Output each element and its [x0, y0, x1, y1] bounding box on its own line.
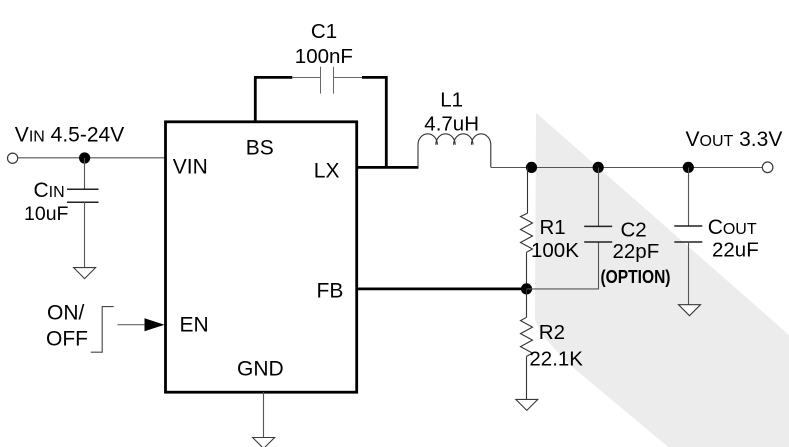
- output terminal circle: [762, 162, 773, 173]
- wire BS riser: [255, 77, 292, 121]
- ground CIN: [74, 268, 96, 279]
- capacitor CIN: [67, 158, 99, 268]
- node COUT junction: [683, 162, 694, 173]
- svg-text:EN: EN: [180, 314, 209, 337]
- capacitor COUT: [674, 167, 702, 304]
- svg-text:CIN: CIN: [34, 179, 65, 202]
- node C2 junction: [593, 162, 604, 173]
- resistor R1: [521, 167, 533, 289]
- resistor R2: [521, 289, 533, 400]
- input terminal circle: [8, 153, 18, 163]
- svg-text:22.1K: 22.1K: [529, 347, 583, 370]
- capacitor C2: [584, 167, 612, 242]
- svg-text:C2: C2: [621, 219, 647, 242]
- wire EN arrow line: [118, 324, 147, 326]
- ground GND: [253, 438, 275, 447]
- ground R2: [516, 399, 538, 410]
- wire VOUT rail: [491, 167, 763, 169]
- node VIN junction: [79, 152, 90, 163]
- svg-text:22uF: 22uF: [712, 239, 759, 262]
- svg-text:GND: GND: [237, 358, 284, 381]
- watermark logo triangle: [535, 113, 789, 447]
- wire FB: [357, 287, 527, 290]
- svg-text:100K: 100K: [531, 239, 579, 262]
- op-amp U1 IC body: [166, 122, 357, 392]
- svg-text:10uF: 10uF: [24, 203, 69, 225]
- svg-text:COUT: COUT: [708, 216, 757, 239]
- ground COUT: [679, 305, 701, 316]
- wire FB to C2: [527, 242, 599, 289]
- node LX rail junction: [526, 162, 537, 173]
- svg-text:OFF: OFF: [46, 327, 88, 350]
- inductor L1: [418, 134, 491, 168]
- svg-text:(OPTION): (OPTION): [601, 267, 671, 287]
- arrowhead EN: [145, 318, 165, 331]
- node FB junction: [521, 283, 532, 294]
- svg-text:ON/: ON/: [47, 302, 85, 325]
- wire LX output: [357, 166, 419, 169]
- svg-text:L1: L1: [440, 88, 463, 111]
- wire ON/OFF bracket: [91, 307, 114, 353]
- svg-text:BS: BS: [246, 137, 274, 160]
- svg-text:100nF: 100nF: [295, 45, 353, 68]
- svg-text:4.7uH: 4.7uH: [424, 113, 479, 136]
- svg-text:VIN: VIN: [173, 155, 208, 178]
- svg-text:R2: R2: [539, 321, 565, 344]
- svg-text:VOUT 3.3V: VOUT 3.3V: [686, 128, 783, 151]
- wire C1 to LX: [362, 77, 386, 167]
- svg-text:FB: FB: [317, 280, 344, 303]
- svg-text:R1: R1: [540, 216, 566, 239]
- svg-text:LX: LX: [314, 160, 340, 183]
- wire GND: [263, 392, 265, 438]
- capacitor C1: [292, 67, 362, 94]
- wire VIN input: [18, 157, 166, 159]
- svg-text:22pF: 22pF: [613, 240, 660, 263]
- svg-text:VIN 4.5-24V: VIN 4.5-24V: [15, 123, 124, 146]
- svg-text:C1: C1: [311, 20, 337, 43]
